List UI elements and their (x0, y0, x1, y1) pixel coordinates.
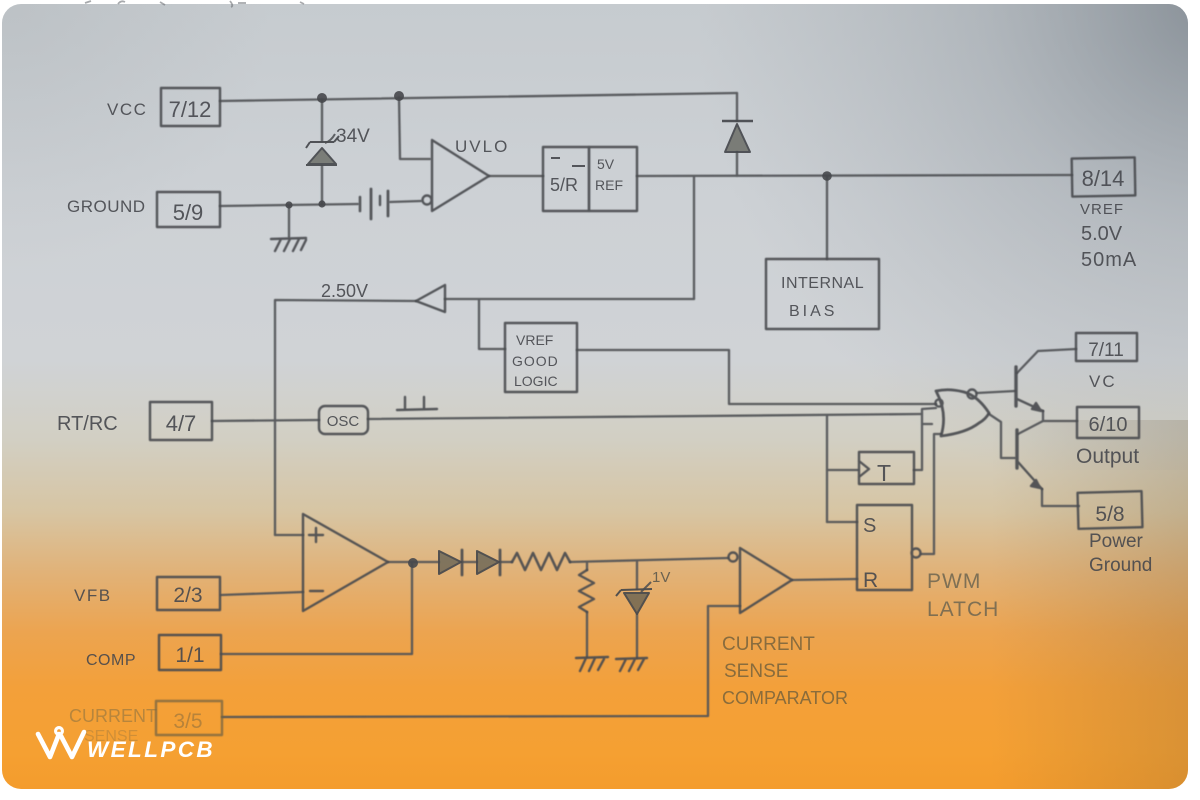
svg-text:5/R: 5/R (550, 175, 578, 195)
svg-text:1V: 1V (652, 569, 670, 586)
svg-text:OSC: OSC (327, 413, 360, 430)
svg-text:2.50V: 2.50V (321, 281, 368, 301)
svg-text:LOGIC: LOGIC (514, 373, 558, 389)
svg-text:6/10: 6/10 (1089, 414, 1128, 436)
svg-text:S: S (863, 515, 876, 537)
svg-text:4/7: 4/7 (166, 411, 197, 436)
svg-text:1/1: 1/1 (175, 644, 204, 667)
svg-text:VC: VC (1089, 372, 1117, 391)
svg-text:VREF: VREF (1080, 201, 1124, 218)
svg-text:GOOD: GOOD (512, 353, 559, 369)
svg-text:T: T (877, 460, 891, 486)
svg-text:Output: Output (1076, 445, 1139, 468)
svg-text:INTERNAL: INTERNAL (781, 275, 864, 292)
svg-text:5.0V: 5.0V (1081, 223, 1123, 245)
svg-text:5/9: 5/9 (173, 200, 204, 225)
svg-text:BIAS: BIAS (789, 303, 837, 320)
svg-text:Ground: Ground (1089, 555, 1152, 576)
svg-text:8/14: 8/14 (1082, 166, 1125, 191)
svg-text:Power: Power (1089, 531, 1144, 552)
svg-text:50mA: 50mA (1081, 249, 1137, 271)
svg-text:7/11: 7/11 (1088, 340, 1124, 361)
svg-text:34V: 34V (336, 126, 370, 147)
svg-text:CURRENT: CURRENT (722, 634, 815, 655)
svg-text:VCC: VCC (107, 100, 147, 119)
svg-text:PWM: PWM (927, 570, 981, 593)
svg-text:UVLO: UVLO (455, 137, 509, 156)
svg-text:3/5: 3/5 (173, 710, 202, 733)
svg-text:COMPARATOR: COMPARATOR (722, 688, 848, 708)
svg-text:VREF: VREF (516, 332, 553, 348)
svg-text:LATCH: LATCH (927, 598, 999, 621)
svg-text:REF: REF (595, 177, 623, 193)
svg-text:SENSE: SENSE (724, 661, 788, 682)
svg-text:5V: 5V (597, 156, 615, 172)
svg-text:WELLPCB: WELLPCB (87, 737, 215, 762)
svg-text:RT/RC: RT/RC (57, 413, 118, 435)
svg-text:2/3: 2/3 (173, 584, 202, 607)
svg-text:7/12: 7/12 (169, 97, 212, 122)
svg-text:VFB: VFB (74, 586, 112, 605)
svg-text:R: R (863, 569, 878, 592)
svg-text:CURRENT: CURRENT (69, 706, 157, 726)
svg-text:GROUND: GROUND (67, 197, 146, 216)
svg-text:COMP: COMP (86, 652, 136, 669)
svg-text:5/8: 5/8 (1095, 503, 1124, 526)
